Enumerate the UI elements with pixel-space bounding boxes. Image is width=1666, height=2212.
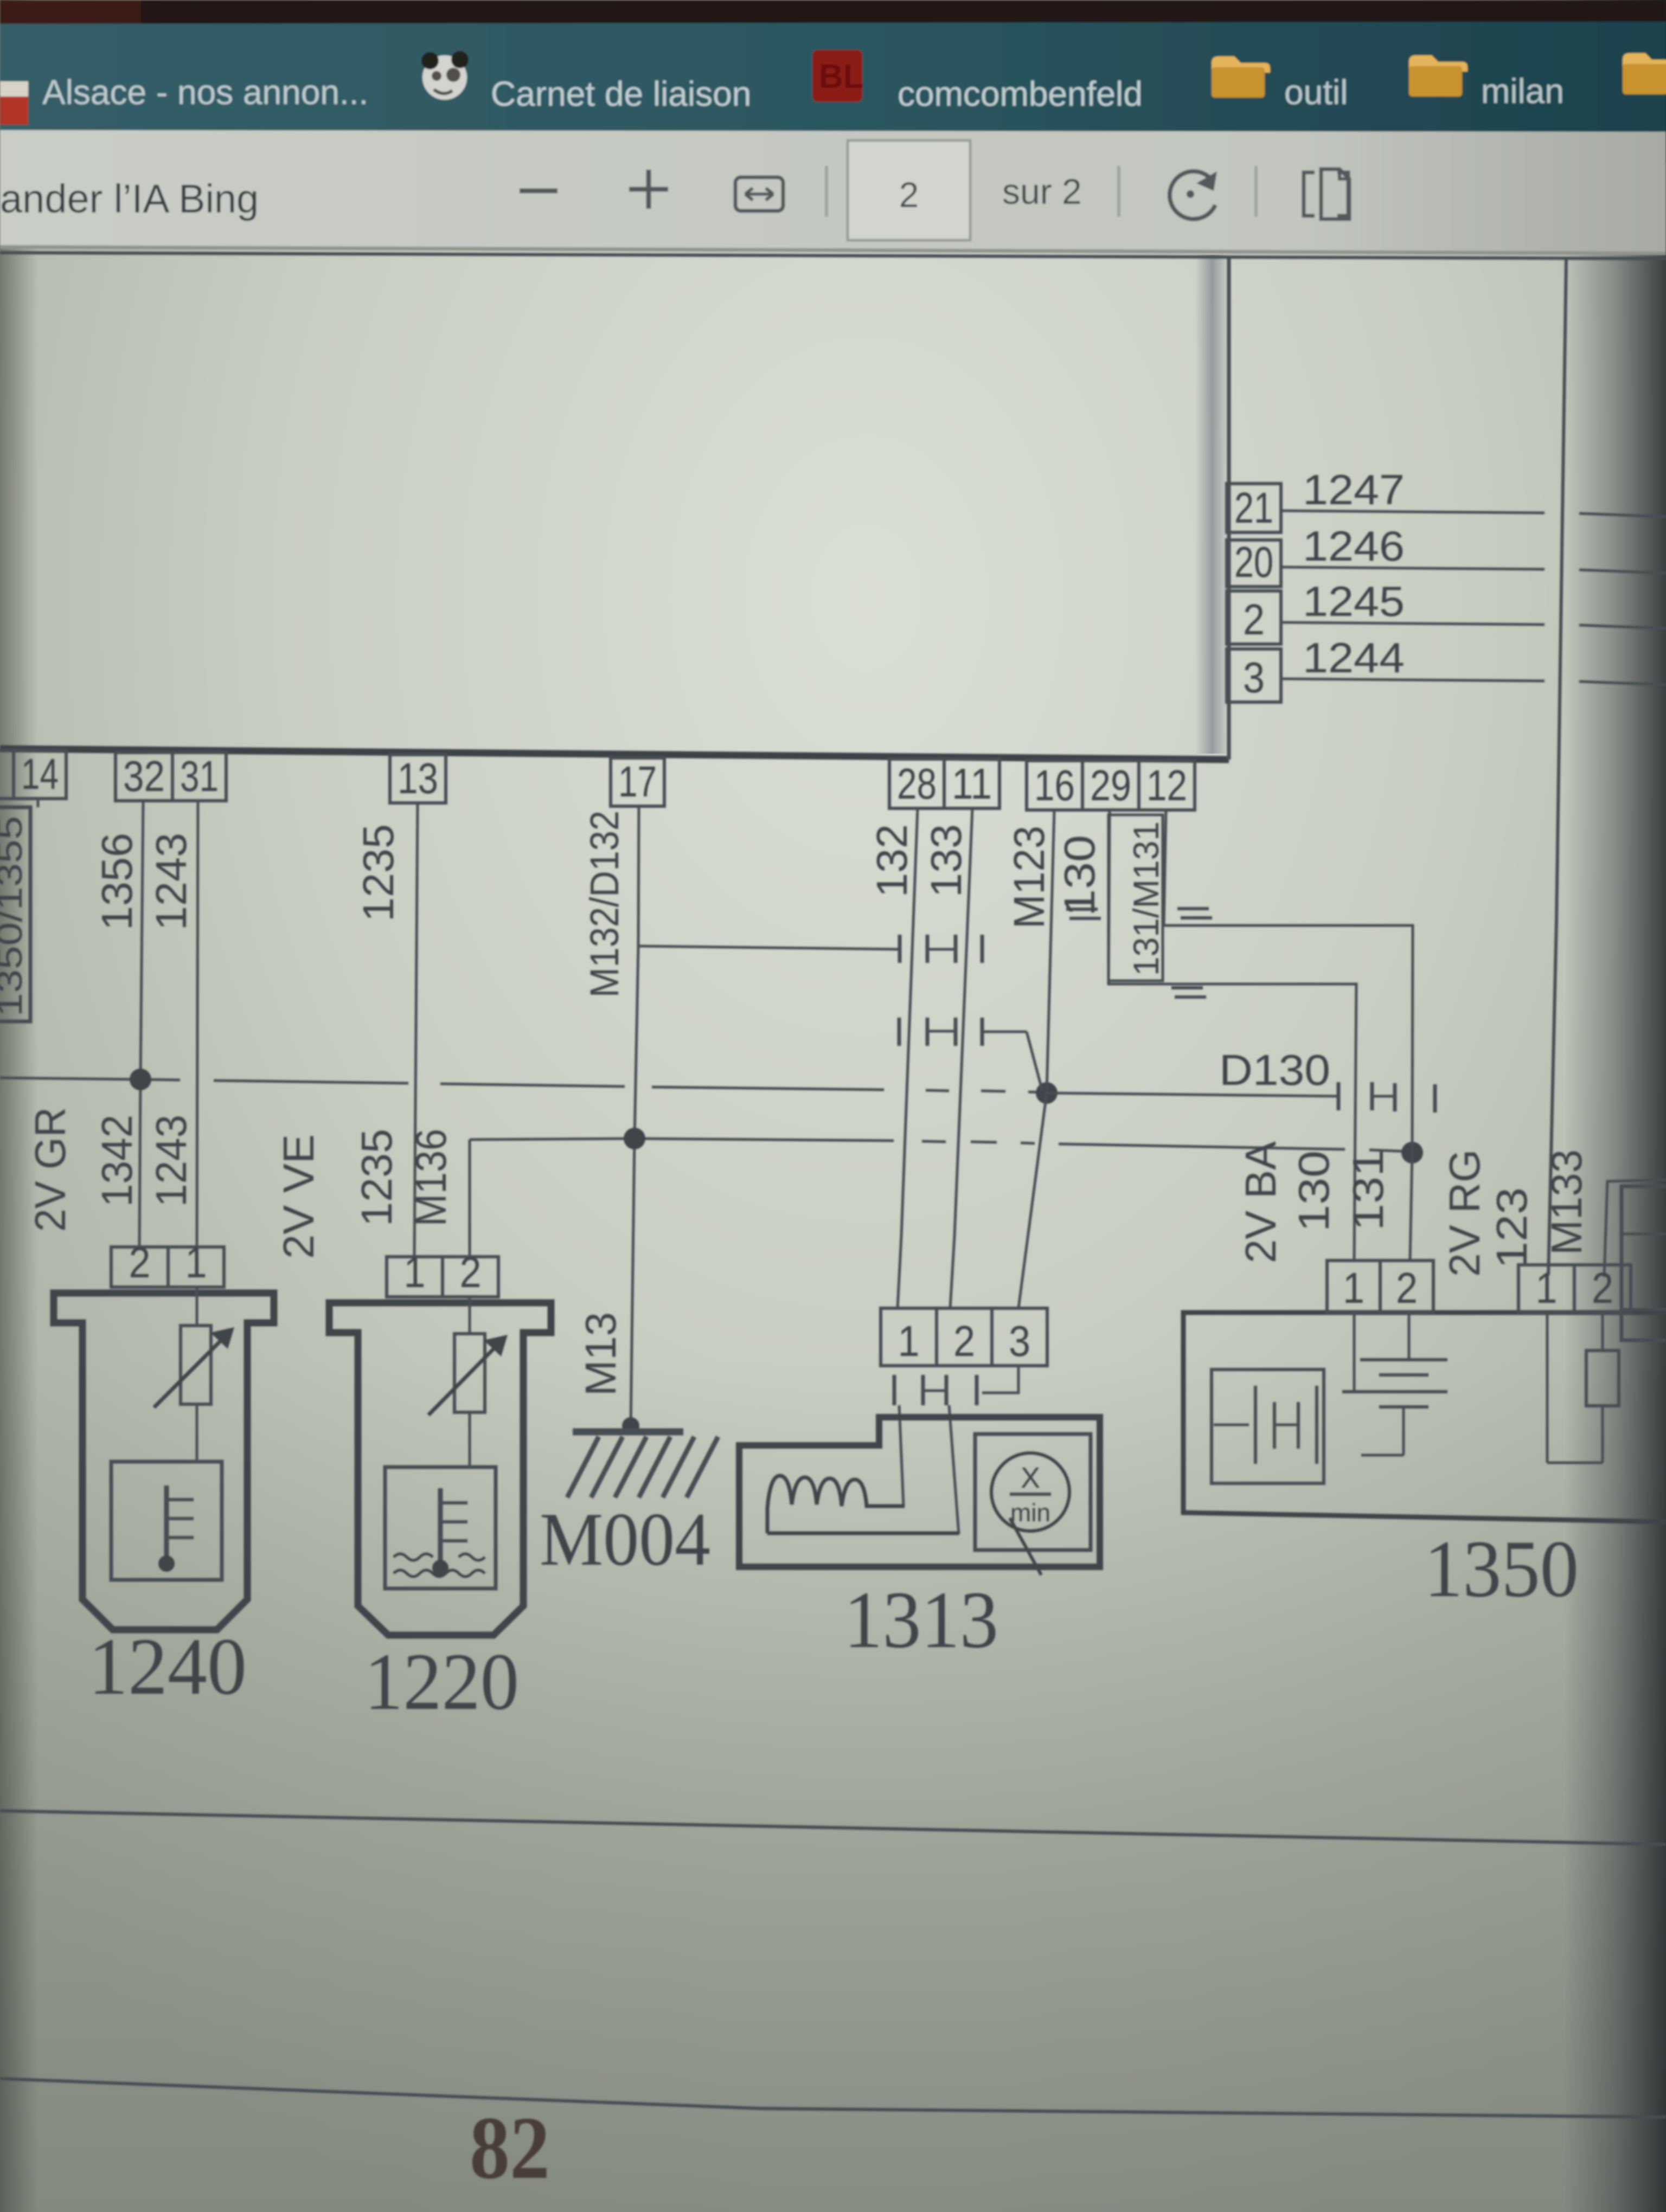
svg-text:130: 130 bbox=[1055, 835, 1104, 916]
ECU pin 11 bbox=[944, 759, 999, 808]
favicon panda bbox=[422, 55, 467, 100]
svg-text:132: 132 bbox=[868, 824, 916, 897]
small component box at right edge bbox=[1622, 1186, 1666, 1340]
wire 1245 (right of 123 wire) bbox=[1579, 625, 1666, 628]
ECU pin 20 (right side) bbox=[1227, 540, 1281, 587]
toolbar separator bbox=[1117, 166, 1120, 217]
wire M132/D132 / M13 (pin 17 to ground M004) bbox=[631, 806, 639, 1426]
svg-text:17: 17 bbox=[618, 757, 657, 806]
svg-text:1350: 1350 bbox=[1424, 1524, 1579, 1614]
ECU pin 3 (right side) bbox=[1227, 649, 1281, 702]
wire 1244 (right of 123 wire) bbox=[1579, 681, 1666, 685]
toolbar plus button bbox=[629, 187, 668, 192]
svg-text:1245: 1245 bbox=[1303, 577, 1405, 625]
wire 131 (pin 12, jog right, down to 1350 pin 2) bbox=[1164, 810, 1413, 1261]
wire 1235 (pin 13 to 1220 pin 1) bbox=[414, 803, 418, 1257]
svg-text:1: 1 bbox=[1343, 1264, 1364, 1312]
svg-text:131/M131: 131/M131 bbox=[1126, 821, 1166, 976]
svg-text:133: 133 bbox=[922, 824, 970, 897]
svg-text:1: 1 bbox=[898, 1317, 920, 1365]
svg-text:1247: 1247 bbox=[1303, 466, 1405, 513]
svg-text:M132/D132: M132/D132 bbox=[582, 811, 627, 998]
svg-text:21: 21 bbox=[1234, 484, 1273, 532]
ECU pin 16 bbox=[1027, 761, 1082, 810]
svg-text:82: 82 bbox=[470, 2098, 550, 2197]
wire M136 (1220 pin 2 up to ground rail) bbox=[469, 1140, 471, 1257]
net 1342/D130 horizontal rail bbox=[0, 1078, 136, 1079]
ECU pin 32 bbox=[116, 753, 172, 801]
svg-text:milan: milan bbox=[1481, 72, 1564, 111]
dark streak left of ECU right edge bbox=[1195, 255, 1229, 754]
svg-text:M13: M13 bbox=[576, 1312, 625, 1396]
svg-text:16: 16 bbox=[1034, 761, 1075, 809]
wire 1243 (pin 31 to 1240 pin 1) bbox=[197, 801, 198, 1247]
1313 pin 2 bbox=[937, 1308, 992, 1366]
toolbar page-view icon bbox=[1304, 172, 1348, 216]
inline connector row 2 bbox=[898, 1018, 901, 1046]
component 1313 body outline bbox=[739, 1417, 1100, 1567]
1313 pin2 wire into body bbox=[949, 1405, 959, 1534]
wire 1246 (right of 123 wire) bbox=[1579, 570, 1666, 573]
ECU pin 12 bbox=[1139, 761, 1195, 810]
1350 pin 2 bbox=[1380, 1261, 1433, 1313]
toolbar minus button bbox=[520, 189, 558, 194]
favicon Alsace bbox=[0, 81, 28, 103]
schematic frame top line bbox=[0, 253, 1666, 259]
svg-text:1246: 1246 bbox=[1303, 522, 1405, 570]
svg-text:1: 1 bbox=[185, 1238, 207, 1287]
ECU pin 29 bbox=[1082, 761, 1139, 810]
svg-text:D130: D130 bbox=[1219, 1046, 1330, 1094]
svg-text:20: 20 bbox=[1234, 538, 1273, 586]
ECU pin 28 bbox=[889, 759, 944, 808]
wire 1350 pin1 into body bbox=[1353, 1313, 1356, 1391]
svg-text:1243: 1243 bbox=[147, 1115, 195, 1207]
svg-text:1220: 1220 bbox=[364, 1637, 519, 1727]
svg-text:M004: M004 bbox=[540, 1497, 710, 1581]
component 1220 body bbox=[329, 1303, 551, 1635]
resistor in 1350 bbox=[1586, 1351, 1619, 1406]
wire 1350 pin2b bbox=[1601, 1313, 1604, 1351]
capacitor plate bbox=[1254, 1386, 1257, 1464]
svg-text:1313: 1313 bbox=[844, 1575, 998, 1665]
svg-text:1243: 1243 bbox=[147, 833, 195, 930]
svg-text:31: 31 bbox=[180, 752, 219, 800]
wire 1245 bbox=[1281, 622, 1545, 625]
ECU 1320 block right edge bbox=[1227, 258, 1231, 760]
ECU pin 13 bbox=[390, 755, 446, 803]
svg-text:12: 12 bbox=[1146, 761, 1187, 809]
wire M123 (pin 16 to 1313 pin 3) bbox=[1018, 810, 1054, 1308]
wire 1356/1342 (pin 32 to 1240 pin 2) bbox=[139, 801, 143, 1247]
ECU pin 21 (right side) bbox=[1227, 484, 1281, 532]
1313 x/min indicator box bbox=[975, 1434, 1091, 1550]
ECU pin 17 bbox=[611, 758, 664, 806]
wire 132 (pin 28 to 1313 pin 1) bbox=[898, 808, 918, 1308]
1220 inner box with thermometer in liquid bbox=[385, 1467, 496, 1589]
wire 1350 pin1b bbox=[1546, 1313, 1549, 1463]
toolbar fit-width icon bbox=[735, 177, 783, 211]
wire 1247 bbox=[1281, 511, 1545, 513]
net D130 (from M123 junction to inline connector) bbox=[1047, 1093, 1338, 1096]
svg-text:28: 28 bbox=[897, 760, 937, 808]
svg-text:3: 3 bbox=[1243, 653, 1265, 702]
wire 123 (vertical from top) bbox=[1548, 259, 1566, 1275]
page footer rule bbox=[0, 2079, 1666, 2117]
favicon folder (milan) bbox=[1409, 55, 1468, 97]
capacitor plate bbox=[1315, 1386, 1318, 1464]
svg-text:1356: 1356 bbox=[93, 833, 141, 930]
toolbar page number box bbox=[848, 140, 970, 240]
1350 pin 1b bbox=[1518, 1265, 1574, 1313]
svg-text:comcombenfeld: comcombenfeld bbox=[898, 74, 1143, 113]
svg-text:min: min bbox=[1010, 1499, 1050, 1527]
svg-text:M133: M133 bbox=[1542, 1149, 1591, 1255]
svg-text:131: 131 bbox=[1344, 1149, 1392, 1231]
connector dash pair on 131 jog bbox=[1177, 907, 1209, 910]
ECU pin 31 bbox=[172, 753, 226, 801]
top dark strip above browser bbox=[0, 0, 1666, 25]
1350 pin 2b bbox=[1574, 1265, 1631, 1313]
component 1350 box bbox=[1183, 1313, 1666, 1522]
1350 capacitor sub-box bbox=[1212, 1369, 1324, 1483]
wire 1350 pin2 into body bbox=[1408, 1313, 1411, 1360]
component 1350/1355 (cut at left edge) bbox=[0, 807, 30, 1021]
svg-text:123: 123 bbox=[1488, 1187, 1536, 1269]
svg-text:outil: outil bbox=[1284, 73, 1348, 112]
component 1240 body bbox=[54, 1293, 274, 1630]
inline connector ticks on D130 bbox=[1337, 1082, 1341, 1110]
svg-text:2V BA: 2V BA bbox=[1236, 1141, 1285, 1263]
connector dash pair near M123 bbox=[1066, 908, 1098, 911]
svg-text:X: X bbox=[1021, 1462, 1040, 1494]
svg-text:1235: 1235 bbox=[353, 1129, 401, 1226]
thermometer stem bbox=[164, 1486, 169, 1561]
connector dash pair on 130 jog bbox=[1171, 986, 1203, 989]
ECU 1320 block bottom edge bbox=[0, 749, 1229, 760]
svg-text:Alsace - nos annon...: Alsace - nos annon... bbox=[42, 73, 368, 112]
svg-text:2: 2 bbox=[1396, 1264, 1418, 1312]
wire 1246 bbox=[1281, 567, 1545, 569]
1240 pin 1 bbox=[168, 1247, 224, 1287]
svg-text:2: 2 bbox=[1592, 1264, 1613, 1312]
svg-text:1350/1355: 1350/1355 bbox=[0, 816, 29, 1017]
wire 1244 bbox=[1281, 679, 1545, 681]
1313 pin 3 bbox=[992, 1308, 1047, 1366]
svg-text:32: 32 bbox=[123, 752, 165, 800]
junction node (131 / ground rail) bbox=[1401, 1142, 1423, 1163]
1313 pin3 link bbox=[982, 1366, 1018, 1393]
svg-text:Carnet de liaison: Carnet de liaison bbox=[491, 74, 751, 113]
svg-text:1: 1 bbox=[404, 1248, 426, 1296]
wire 1247 (right of 123 wire) bbox=[1579, 513, 1666, 517]
thermometer stem bbox=[438, 1488, 443, 1567]
capacitor plate bbox=[1273, 1402, 1276, 1449]
favicon folder (clipped at edge) bbox=[1623, 53, 1666, 94]
svg-text:2V GR: 2V GR bbox=[26, 1107, 74, 1232]
1240 pin 2 bbox=[111, 1247, 168, 1287]
branch from M132/D132 node to inline connectors (row 1) bbox=[638, 946, 900, 949]
1313 pin 1 bbox=[881, 1308, 937, 1366]
svg-text:BL: BL bbox=[819, 58, 864, 95]
svg-text:1240: 1240 bbox=[88, 1622, 247, 1712]
1313 sensing track (sawtooth) bbox=[767, 1476, 905, 1533]
svg-text:M136: M136 bbox=[407, 1129, 455, 1226]
capacitor plate bbox=[1297, 1402, 1300, 1449]
svg-text:1244: 1244 bbox=[1303, 634, 1405, 681]
ground rail net (M136 to 131 junction) bbox=[470, 1139, 635, 1140]
inline connector row under 1313 pins bbox=[893, 1375, 896, 1405]
wire pin14 to 1350/1355 bbox=[37, 799, 40, 807]
svg-text:14: 14 bbox=[21, 750, 59, 798]
ECU pin 2 (right side) bbox=[1227, 591, 1281, 644]
svg-text:sur 2: sur 2 bbox=[1002, 171, 1082, 211]
junction node (M13 / ground rail) bbox=[624, 1128, 645, 1149]
favicon BL red bbox=[812, 50, 862, 102]
liquid waves bbox=[394, 1554, 485, 1560]
svg-text:2: 2 bbox=[953, 1317, 975, 1365]
1240 inner box with thermometer bbox=[111, 1462, 222, 1580]
svg-text:2: 2 bbox=[460, 1248, 482, 1296]
ECU pin 14 bbox=[14, 750, 66, 799]
svg-text:2: 2 bbox=[129, 1238, 151, 1287]
svg-text:2: 2 bbox=[899, 175, 919, 215]
svg-text:11: 11 bbox=[952, 760, 992, 808]
1220 pin 2 bbox=[443, 1257, 498, 1297]
svg-text:ander l’IA Bing: ander l’IA Bing bbox=[0, 176, 259, 221]
wire 130 (pin 29, jog right, down to 1350 pin 1) bbox=[1108, 810, 1356, 1261]
svg-text:3: 3 bbox=[1009, 1317, 1030, 1365]
label box 131/M131 bbox=[1108, 815, 1163, 981]
1240 thermistor bbox=[196, 1287, 198, 1326]
svg-text:29: 29 bbox=[1090, 761, 1131, 809]
schematic frame bottom line bbox=[0, 1811, 1666, 1844]
svg-text:2V RG: 2V RG bbox=[1440, 1149, 1489, 1277]
1220 pin 1 bbox=[387, 1257, 443, 1297]
favicon folder (outil) bbox=[1212, 56, 1270, 98]
toolbar rotate icon bbox=[1170, 171, 1215, 219]
wire M133 (from right edge to 1350 pin 2b) bbox=[1604, 1180, 1666, 1277]
junction node (1342 / rail) bbox=[130, 1069, 151, 1090]
wire 133 (pin 11 to 1313 pin 2) bbox=[950, 808, 972, 1308]
1220 thermistor bbox=[469, 1297, 471, 1334]
svg-text:1342: 1342 bbox=[93, 1115, 141, 1207]
ground M004 bbox=[622, 1417, 639, 1435]
svg-text:M123: M123 bbox=[1005, 826, 1053, 929]
svg-text:130: 130 bbox=[1290, 1150, 1338, 1232]
PDF toolbar background bbox=[0, 130, 1666, 255]
svg-text:13: 13 bbox=[398, 754, 438, 802]
svg-text:1: 1 bbox=[1536, 1264, 1558, 1312]
1350 pin 1 bbox=[1327, 1261, 1380, 1313]
svg-text:2V VE: 2V VE bbox=[274, 1134, 323, 1259]
toolbar separator bbox=[825, 166, 828, 217]
toolbar separator bbox=[1254, 166, 1258, 217]
ECU pin box (cut at left edge) bbox=[0, 750, 14, 799]
bookmarks bar (teal) bbox=[0, 22, 1666, 132]
1313 pin1 wire into body bbox=[899, 1405, 904, 1506]
svg-text:2: 2 bbox=[1243, 595, 1265, 644]
svg-text:1235: 1235 bbox=[354, 824, 402, 922]
junction node (M123 / D130) bbox=[1036, 1082, 1058, 1104]
